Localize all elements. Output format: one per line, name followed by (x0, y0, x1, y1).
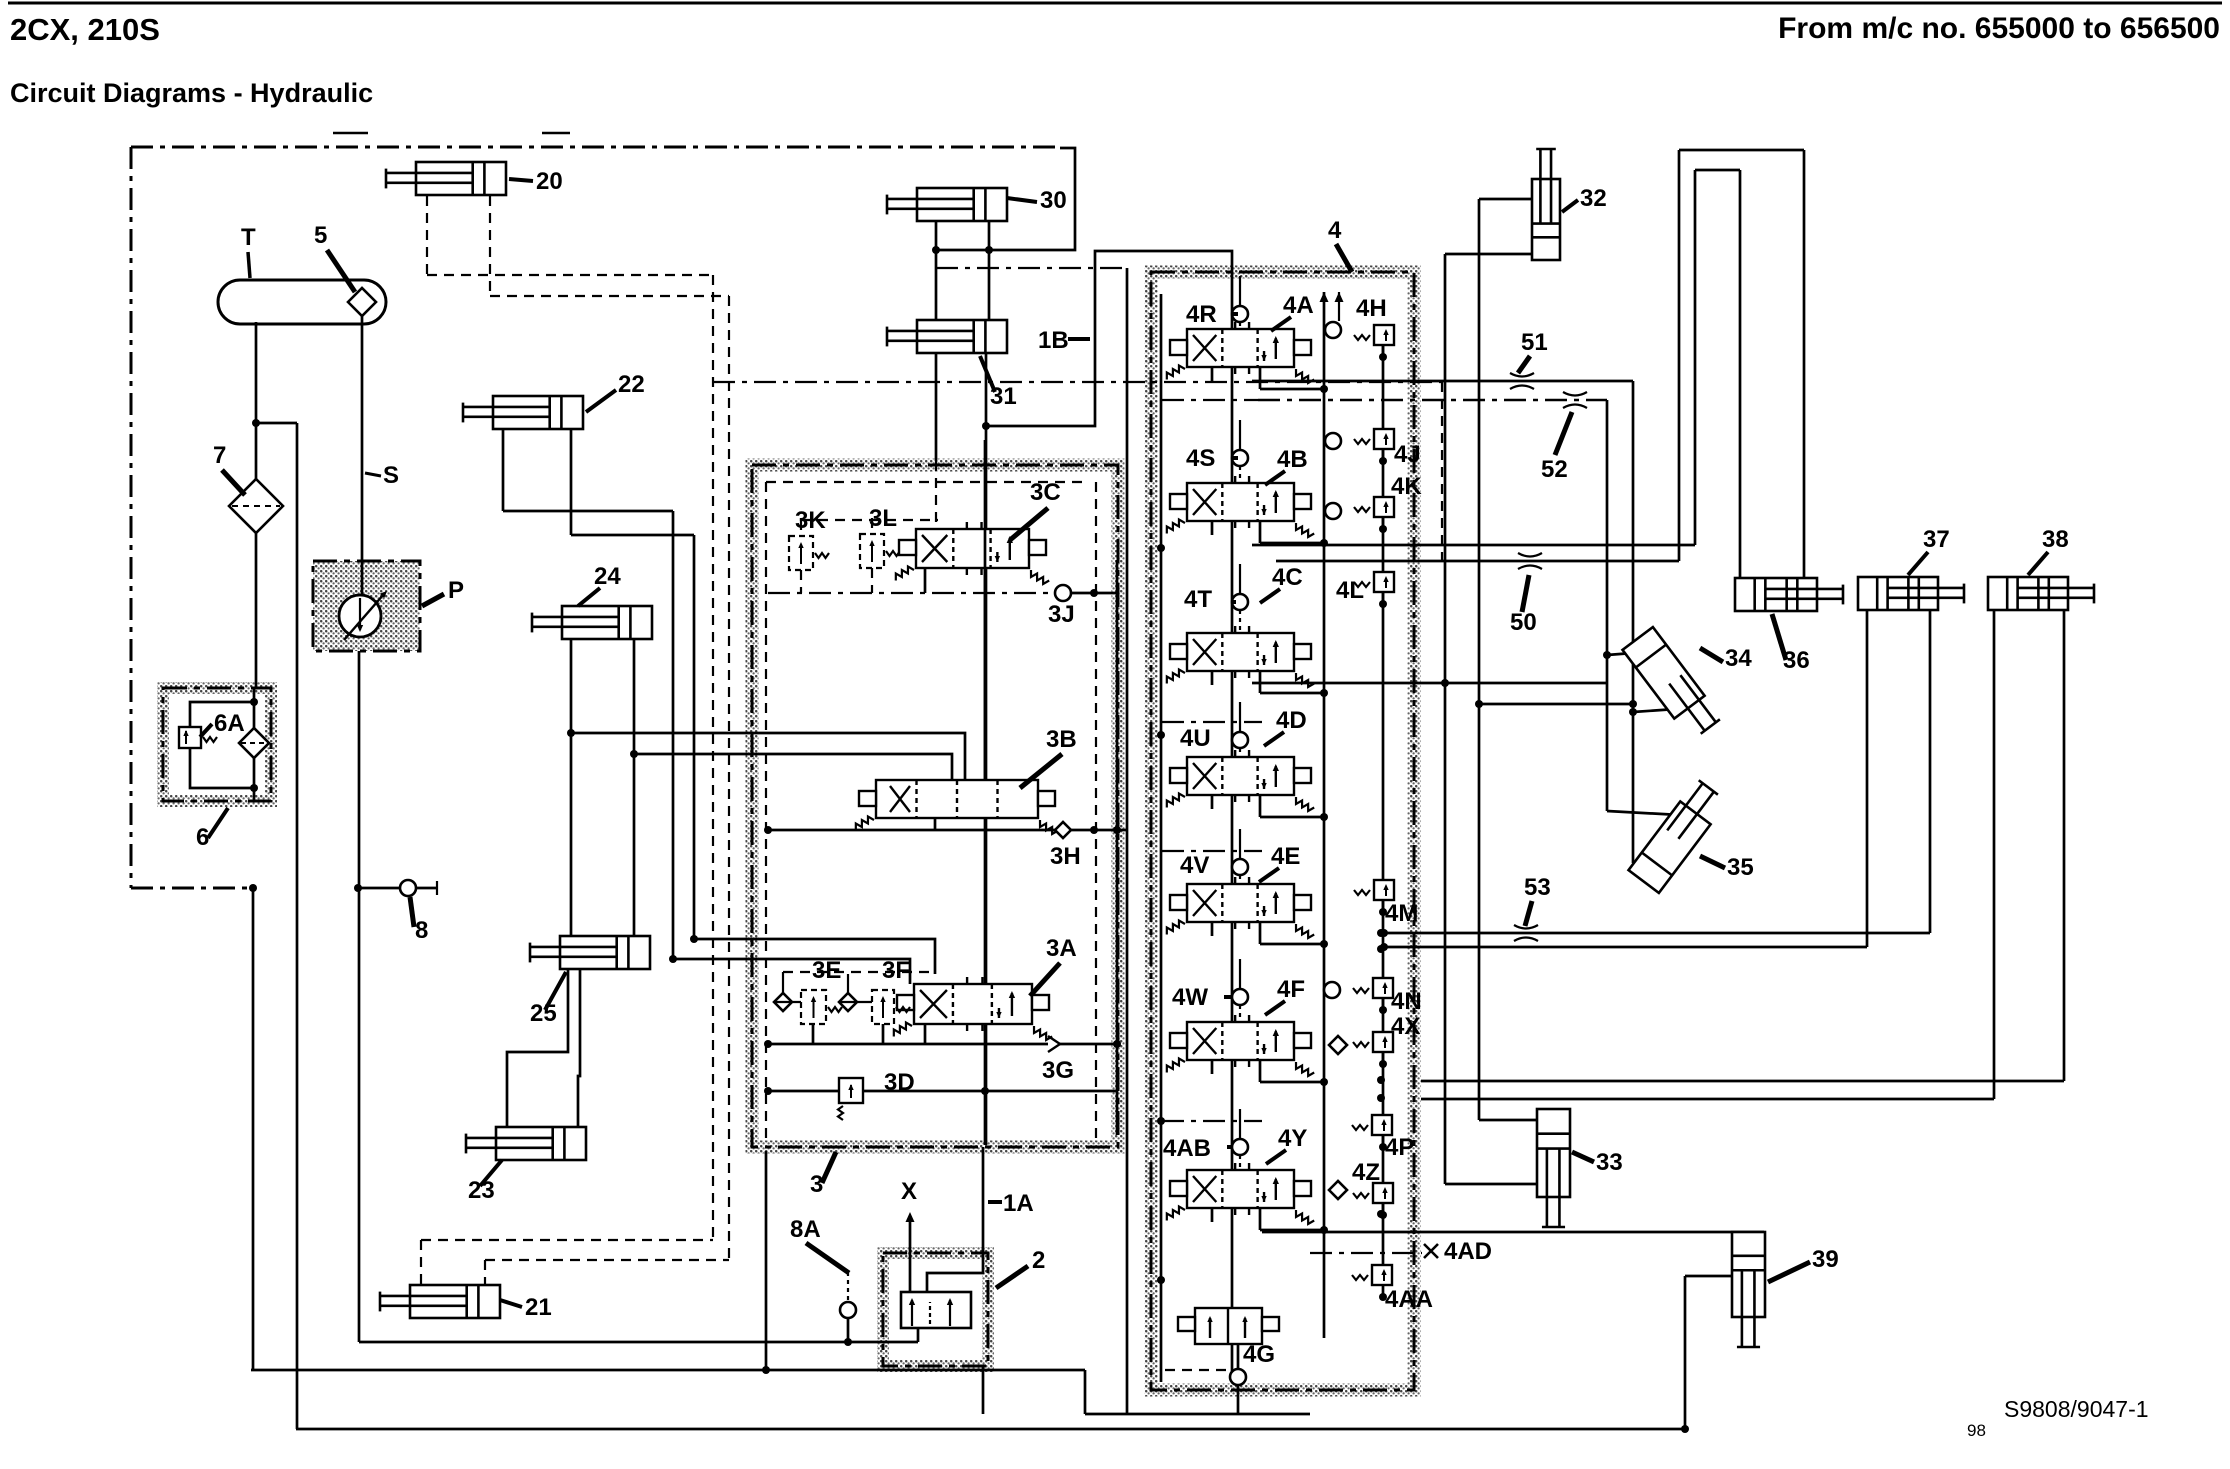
svg-text:3B: 3B (1046, 726, 1077, 753)
svg-text:4A: 4A (1283, 292, 1314, 319)
svg-text:3G: 3G (1042, 1057, 1074, 1084)
svg-text:36: 36 (1783, 647, 1810, 674)
svg-text:4M: 4M (1385, 900, 1418, 927)
svg-text:35: 35 (1727, 854, 1754, 881)
svg-text:4X: 4X (1391, 1013, 1420, 1040)
svg-text:4E: 4E (1271, 843, 1300, 870)
svg-text:3C: 3C (1030, 479, 1061, 506)
svg-text:4N: 4N (1391, 988, 1422, 1015)
svg-text:22: 22 (618, 371, 645, 398)
svg-text:32: 32 (1580, 185, 1607, 212)
svg-text:52: 52 (1541, 456, 1568, 483)
svg-text:1A: 1A (1003, 1190, 1034, 1217)
svg-text:4: 4 (1328, 217, 1342, 244)
svg-text:38: 38 (2042, 526, 2069, 553)
svg-text:4C: 4C (1272, 564, 1303, 591)
svg-text:30: 30 (1040, 187, 1067, 214)
svg-text:5: 5 (314, 222, 327, 249)
svg-text:4L: 4L (1336, 577, 1364, 604)
svg-text:4K: 4K (1391, 473, 1422, 500)
svg-text:From m/c no. 655000 to 656500: From m/c no. 655000 to 656500 (1778, 12, 2220, 45)
svg-text:37: 37 (1923, 526, 1950, 553)
svg-text:4P: 4P (1385, 1134, 1414, 1161)
svg-text:34: 34 (1725, 645, 1752, 672)
svg-text:4AB: 4AB (1163, 1135, 1211, 1162)
svg-text:51: 51 (1521, 329, 1548, 356)
svg-text:53: 53 (1524, 874, 1551, 901)
svg-text:33: 33 (1596, 1149, 1623, 1176)
svg-text:2CX, 210S: 2CX, 210S (10, 12, 160, 47)
svg-text:3A: 3A (1046, 935, 1077, 962)
svg-text:23: 23 (468, 1177, 495, 1204)
svg-text:3: 3 (810, 1171, 823, 1198)
svg-text:Circuit Diagrams - Hydraulic: Circuit Diagrams - Hydraulic (10, 78, 373, 108)
svg-text:4T: 4T (1184, 586, 1212, 613)
svg-text:8A: 8A (790, 1216, 821, 1243)
svg-text:4Z: 4Z (1352, 1159, 1380, 1186)
svg-text:3J: 3J (1048, 601, 1075, 628)
svg-text:4Y: 4Y (1278, 1125, 1307, 1152)
svg-text:4W: 4W (1172, 984, 1208, 1011)
svg-text:24: 24 (594, 563, 621, 590)
svg-text:6A: 6A (214, 710, 245, 737)
svg-text:4V: 4V (1180, 852, 1209, 879)
svg-text:P: P (448, 577, 464, 604)
svg-text:4U: 4U (1180, 725, 1211, 752)
svg-text:4J: 4J (1394, 441, 1421, 468)
svg-text:4AD: 4AD (1444, 1238, 1492, 1265)
svg-text:4F: 4F (1277, 976, 1305, 1003)
svg-text:3D: 3D (884, 1069, 915, 1096)
svg-text:4B: 4B (1277, 446, 1308, 473)
svg-text:X: X (901, 1178, 917, 1205)
svg-text:4D: 4D (1276, 707, 1307, 734)
svg-text:3E: 3E (812, 957, 841, 984)
svg-text:2: 2 (1032, 1247, 1045, 1274)
svg-text:S9808/9047-1: S9808/9047-1 (2004, 1396, 2149, 1422)
svg-text:4R: 4R (1186, 301, 1217, 328)
svg-text:S: S (383, 462, 399, 489)
svg-text:4H: 4H (1356, 295, 1387, 322)
svg-text:4G: 4G (1243, 1341, 1275, 1368)
svg-text:20: 20 (536, 168, 563, 195)
svg-text:21: 21 (525, 1294, 552, 1321)
svg-text:3F: 3F (882, 957, 910, 984)
svg-text:T: T (241, 224, 256, 251)
svg-text:39: 39 (1812, 1246, 1839, 1273)
svg-text:1B: 1B (1038, 327, 1069, 354)
svg-text:4S: 4S (1186, 445, 1215, 472)
svg-text:8: 8 (415, 917, 428, 944)
svg-text:7: 7 (213, 442, 226, 469)
svg-text:50: 50 (1510, 609, 1537, 636)
svg-text:25: 25 (530, 1000, 557, 1027)
svg-text:3H: 3H (1050, 843, 1081, 870)
svg-text:98: 98 (1967, 1421, 1986, 1440)
svg-text:4AA: 4AA (1385, 1286, 1433, 1313)
svg-text:3L: 3L (869, 505, 897, 532)
